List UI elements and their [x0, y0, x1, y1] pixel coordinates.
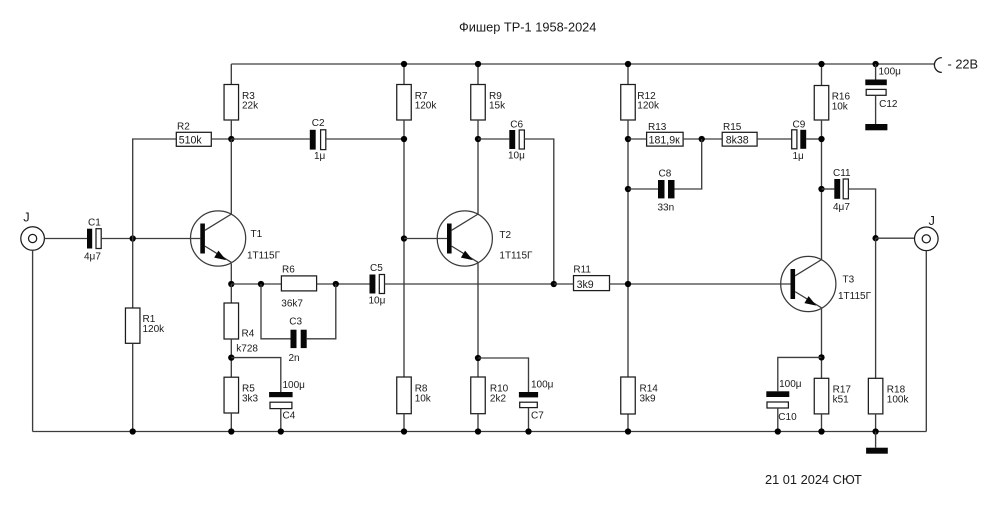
junction: C4 at ground rail — [278, 428, 284, 434]
svg-text:100k: 100k — [887, 394, 910, 405]
wire: R5 to ground rail — [230, 413, 232, 432]
resistor R16 10k — [814, 86, 850, 121]
wire: top rail down to R3 — [230, 64, 232, 85]
resistor R4 k728 — [224, 303, 258, 355]
resistor R2 510k — [176, 122, 211, 147]
junction: C7 branch node — [475, 355, 481, 361]
resistor R10 2k2 — [471, 377, 509, 414]
wire: C8 loop right up — [675, 139, 702, 189]
transistor T2 — [437, 211, 533, 266]
wire: R6 to C5 node — [317, 283, 370, 285]
svg-text:120k: 120k — [637, 101, 660, 112]
junction: output node — [872, 235, 878, 241]
svg-text:120k: 120k — [143, 324, 166, 335]
wire: R13 to R15 — [683, 138, 722, 140]
capacitor C7 100u — [519, 380, 554, 422]
svg-text:1μ: 1μ — [314, 151, 326, 162]
svg-text:510k: 510k — [179, 135, 203, 147]
svg-text:R2: R2 — [177, 122, 190, 133]
wire: C7 to ground rail — [528, 408, 530, 432]
ground bar below C12 — [865, 95, 887, 130]
svg-text:1μ: 1μ — [793, 151, 805, 162]
wire: R10 to ground rail — [477, 414, 479, 432]
svg-text:3k3: 3k3 — [242, 394, 259, 405]
wire: R8 to ground rail — [403, 414, 405, 432]
wire: emitter node to R6 — [231, 283, 281, 285]
input jack J — [21, 210, 45, 251]
junction: C2/R7 node — [401, 136, 407, 142]
junction: C12 at top rail — [872, 61, 878, 67]
svg-text:R13: R13 — [648, 122, 667, 133]
junction: C8 branch left — [625, 186, 631, 192]
resistor R15 8k38 — [722, 122, 757, 146]
wire: top rail down to R7 — [403, 64, 405, 85]
junction: T2 collector node — [475, 136, 481, 142]
junction: R17 at ground rail — [818, 428, 824, 434]
wire: C11 right to output column — [848, 189, 875, 238]
svg-text:- 22B: - 22B — [948, 57, 979, 72]
resistor R6 36k7 — [281, 264, 316, 309]
capacitor C12 100u — [865, 64, 901, 110]
wire: output jack down to ground rail — [925, 251, 927, 432]
junction: R7 at top rail — [401, 61, 407, 67]
resistor R12 120k — [621, 85, 660, 121]
junction: C11 branch node — [818, 186, 824, 192]
wire: output node to jack — [876, 237, 915, 239]
svg-text:R4: R4 — [242, 329, 255, 340]
junction: C6 branch at emitter line — [551, 281, 557, 287]
wire: top rail down to R16 — [821, 64, 823, 86]
wire: C10 branch — [778, 357, 822, 391]
svg-text:36k7: 36k7 — [281, 299, 303, 310]
wire: collector node down to T1 — [230, 139, 232, 214]
svg-text:181,9к: 181,9к — [649, 134, 681, 146]
resistor R8 10k — [397, 377, 432, 414]
junction: R4/R5 node — [228, 354, 234, 360]
svg-text:33n: 33n — [658, 203, 675, 214]
wire: R11 right lead — [610, 283, 629, 285]
resistor R14 3k9 — [621, 377, 659, 414]
capacitor C10 100u — [766, 379, 801, 423]
svg-text:Фишер ТР-1 1958-2024: Фишер ТР-1 1958-2024 — [459, 20, 596, 35]
junction: C9/R16 node — [818, 136, 824, 142]
capacitor C6 10u — [508, 119, 525, 161]
wire: R18 to ground rail — [875, 414, 877, 432]
svg-text:120k: 120k — [415, 101, 438, 112]
junction: R9 at top rail — [475, 61, 481, 67]
svg-text:C11: C11 — [833, 168, 851, 179]
svg-text:C12: C12 — [879, 99, 898, 110]
junction: C10 at ground rail — [775, 428, 781, 434]
wire: input jack down to ground rail — [32, 250, 34, 431]
output jack J — [915, 213, 939, 251]
svg-text:T1: T1 — [251, 229, 263, 240]
wire: R4 to R5 — [230, 339, 232, 377]
wire: input jack to C1 — [44, 238, 87, 240]
capacitor C9 1u — [792, 119, 807, 162]
svg-text:10μ: 10μ — [508, 150, 525, 161]
wire: C3 loop left — [261, 284, 291, 339]
svg-text:k51: k51 — [833, 394, 850, 405]
svg-text:10k: 10k — [415, 394, 432, 405]
wire: collector node to C6 — [478, 138, 509, 140]
svg-text:100μ: 100μ — [283, 380, 306, 391]
svg-text:10k: 10k — [832, 102, 849, 113]
wire: C4 to ground rail — [280, 409, 282, 432]
wire: R7 down through base node to R8 — [403, 120, 405, 377]
wire: C3 loop right — [307, 284, 336, 339]
svg-text:C10: C10 — [778, 412, 797, 423]
capacitor C5 10u — [369, 263, 386, 307]
wire: R13 left lead — [628, 138, 647, 140]
capacitor C4 100u — [269, 380, 305, 422]
svg-text:C6: C6 — [510, 119, 523, 130]
junction: C7 at ground rail — [525, 428, 531, 434]
wire: R1 to ground rail — [132, 343, 134, 431]
svg-text:R6: R6 — [282, 264, 295, 275]
junction: R12/R13 node — [625, 136, 631, 142]
junction: C3 branch right — [333, 281, 339, 287]
svg-text:C5: C5 — [370, 263, 383, 274]
wire: top rail down to R12 — [627, 64, 629, 85]
junction: T1 collector node — [228, 136, 234, 142]
wire: R3 to collector node — [230, 120, 232, 139]
svg-text:R15: R15 — [723, 122, 742, 133]
svg-text:4μ7: 4μ7 — [833, 202, 850, 213]
capacitor C11 4u7 — [833, 168, 851, 213]
wire: R12 column down to R14 — [627, 120, 629, 377]
svg-text:C2: C2 — [312, 118, 325, 129]
capacitor C8 33n — [658, 169, 675, 214]
svg-text:C9: C9 — [793, 119, 806, 130]
svg-text:10μ: 10μ — [369, 296, 386, 307]
junction: R11/R12 emitter-line node — [625, 281, 631, 287]
svg-text:R11: R11 — [573, 264, 591, 275]
wire: T2 emitter down to R10 — [477, 262, 479, 377]
transistor T3 — [781, 256, 872, 311]
wire: C7 branch — [478, 358, 529, 392]
junction: input node — [130, 235, 136, 241]
wire: T1 emitter down — [230, 264, 232, 284]
svg-text:2k2: 2k2 — [490, 394, 507, 405]
junction: R10 at ground rail — [475, 428, 481, 434]
power terminal -22B arc — [934, 58, 941, 73]
wire: bottom ground rail — [33, 431, 927, 433]
svg-text:21 01 2024 СЮТ: 21 01 2024 СЮТ — [765, 472, 862, 487]
wire: R4 top lead — [230, 284, 232, 303]
wire: collector node to C2 — [231, 138, 309, 140]
wire: top supply rail — [231, 63, 934, 65]
svg-text:1Т115Г: 1Т115Г — [499, 251, 533, 262]
svg-text:T3: T3 — [843, 275, 855, 286]
wire: C1 to T1 base — [101, 238, 200, 240]
junction: R12 at top rail — [625, 61, 631, 67]
junction: R16 at top rail — [818, 61, 824, 67]
svg-text:3k9: 3k9 — [577, 279, 594, 291]
svg-text:8k38: 8k38 — [726, 134, 749, 146]
junction: C3 branch left — [258, 281, 264, 287]
svg-text:15k: 15k — [489, 101, 506, 112]
wire: base node to T2 — [404, 238, 447, 240]
wire: R14 lower lead — [627, 414, 629, 432]
wire: R15 to C9 — [757, 138, 792, 140]
junction: R13/R15/C8 node — [699, 136, 705, 142]
junction: C10 branch node — [818, 354, 824, 360]
wire: C10 to ground rail — [777, 408, 779, 432]
svg-text:1Т115Г: 1Т115Г — [247, 250, 281, 261]
junction: R14 at ground rail — [625, 428, 631, 434]
capacitor C2 1u — [310, 118, 326, 162]
resistor R17 k51 — [814, 378, 851, 414]
svg-text:100μ: 100μ — [531, 380, 554, 391]
junction: R18 at ground rail — [872, 428, 878, 434]
wire: top rail down to R9 — [477, 64, 479, 85]
svg-text:C7: C7 — [531, 410, 544, 421]
resistor R7 120k — [397, 85, 438, 121]
wire: C2 to R7 node — [326, 138, 404, 140]
wire: R17 to ground rail — [821, 414, 823, 432]
wire: emitter line to T3 base — [628, 283, 791, 285]
wire: input node down to R1 — [132, 239, 134, 309]
svg-text:4μ7: 4μ7 — [84, 252, 101, 263]
wire: input node up to R2 — [133, 139, 177, 239]
resistor R13 181,9k — [647, 122, 684, 146]
wire: C8 loop left — [628, 188, 658, 190]
svg-text:C8: C8 — [659, 169, 672, 180]
svg-text:2n: 2n — [289, 353, 300, 364]
svg-text:100μ: 100μ — [879, 67, 902, 78]
svg-text:C3: C3 — [289, 316, 302, 327]
svg-text:22k: 22k — [242, 101, 259, 112]
resistor R11 3k9 — [573, 264, 609, 291]
svg-text:J: J — [929, 213, 935, 228]
wire: R2 to collector node — [211, 138, 231, 140]
svg-text:3k9: 3k9 — [640, 394, 657, 405]
capacitor C3 2n — [289, 316, 307, 364]
resistor R3 22k — [224, 85, 259, 121]
junction: T2 base node — [401, 235, 407, 241]
wire: C9 to R16 node — [806, 138, 821, 140]
wire: C5 to R11 node — [385, 283, 554, 285]
capacitor C1 4u7 — [84, 218, 101, 263]
ground symbol at output — [866, 432, 888, 454]
junction: R5 at ground rail — [228, 428, 234, 434]
svg-text:100μ: 100μ — [779, 379, 802, 390]
resistor R18 100k — [868, 378, 909, 414]
svg-text:J: J — [23, 210, 29, 225]
svg-text:C1: C1 — [88, 218, 101, 229]
svg-text:T2: T2 — [499, 230, 511, 241]
junction: T1 emitter node — [228, 281, 234, 287]
transistor T1 — [191, 211, 281, 266]
resistor R9 15k — [471, 85, 506, 121]
wire: R16 down to T3 collector — [821, 120, 823, 260]
wire: C6 right then down to emitter line — [524, 139, 553, 284]
wire: C11 left lead — [822, 188, 835, 190]
wire: R11 to R14 node — [554, 283, 574, 285]
wire: C4 branch — [231, 358, 280, 392]
resistor R1 120k — [125, 308, 165, 343]
junction: R1 at ground rail — [130, 428, 136, 434]
wire: T3 emitter down to R17 — [821, 308, 823, 379]
wire: R9 to T2 collector — [477, 120, 479, 214]
svg-text:C4: C4 — [283, 411, 296, 422]
svg-text:1Т115Г: 1Т115Г — [838, 291, 872, 302]
wire: output node down to R18 — [875, 238, 877, 378]
svg-text:k728: k728 — [236, 344, 258, 355]
junction: R8 at ground rail — [401, 428, 407, 434]
resistor R5 3k3 — [224, 377, 259, 413]
